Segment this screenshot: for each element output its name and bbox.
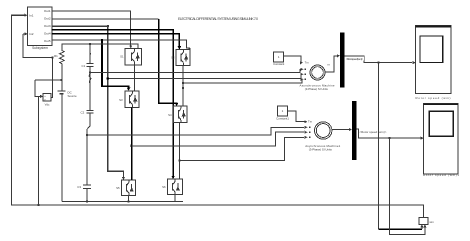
- svg-text:Vdc: Vdc: [45, 103, 50, 107]
- scope 2: [423, 104, 459, 178]
- svg-text:C2: C2: [80, 111, 84, 115]
- svg-text:Source: Source: [68, 94, 78, 98]
- scope 1: [416, 26, 452, 101]
- switch S2 (IGBT): [171, 49, 190, 65]
- wire S4 emitter to S6 collector: [178, 123, 180, 179]
- motor M1 (asynchronous machine): [300, 54, 341, 91]
- switch S4 (IGBT): [168, 106, 187, 123]
- wire phase A to motor1: [89, 68, 304, 74]
- bus selector bar 1: [340, 33, 345, 88]
- wire bar1 to scope1: [345, 56, 416, 64]
- voltage measurement block V1: [43, 94, 51, 107]
- svg-text:S5: S5: [116, 186, 120, 190]
- wire out4 (bold) to S6 gate: [52, 30, 175, 179]
- wire phase C to motor1: [182, 78, 304, 84]
- constant block K1: [273, 52, 309, 66]
- svg-text:In2: In2: [29, 32, 34, 36]
- motor M2 (asynchronous machine): [305, 122, 352, 152]
- svg-text:C3: C3: [77, 185, 81, 189]
- capacitor C3: [77, 185, 91, 201]
- wire out5 (bold) to S2 gate: [52, 34, 182, 50]
- feedback wire wm2 to sum: [388, 137, 426, 234]
- svg-text:S6: S6: [162, 185, 166, 189]
- wire S3 emitter to S5 collector (bold): [131, 107, 133, 180]
- sum block: [419, 218, 435, 225]
- svg-text:R1: R1: [54, 54, 58, 58]
- switch S6 (IGBT): [162, 179, 182, 195]
- svg-text:Out1: Out1: [44, 9, 51, 13]
- title text: [178, 17, 258, 21]
- feedback wire wm1 to sum: [378, 62, 424, 230]
- wire out3 to S3/S5 gate bus: [52, 25, 125, 180]
- svg-text:Rotor speed (wm)1: Rotor speed (wm)1: [423, 173, 459, 177]
- feedback wire long bottom: [12, 14, 424, 218]
- bottom dc- rail: [62, 195, 183, 203]
- capacitor C2: [80, 110, 93, 184]
- svg-text:Out2: Out2: [44, 17, 51, 21]
- svg-text:Subsystem: Subsystem: [32, 46, 48, 50]
- svg-text:<Rotor speed (wm)>: <Rotor speed (wm)>: [346, 57, 364, 61]
- wire phase B to motor1: [107, 73, 304, 80]
- svg-text:Constant: Constant: [273, 62, 284, 66]
- svg-text:wm: wm: [430, 220, 435, 224]
- resistor R1: [54, 49, 64, 66]
- wire phase C2 to motor2: [179, 136, 307, 161]
- constant block K2: [276, 106, 313, 123]
- dc+ rail: [62, 43, 138, 49]
- svg-text:<Rotor speed (wm)>: <Rotor speed (wm)>: [359, 130, 386, 134]
- capacitor C1: [81, 45, 93, 110]
- svg-text:Out4: Out4: [44, 32, 51, 36]
- wire out6 to S2 collector: [52, 40, 190, 50]
- dc source B1: [57, 65, 77, 201]
- wire bar2 to scope2: [357, 129, 424, 140]
- svg-text:ELECTRICAL DIFFERENTIAL SYSTEM: ELECTRICAL DIFFERENTIAL SYSTEM USING SIM…: [178, 17, 258, 21]
- switch S1 (IGBT): [120, 48, 141, 65]
- wire in2 loop: [23, 32, 62, 97]
- svg-text:Tm: Tm: [308, 119, 313, 123]
- bus selector bar 2: [352, 101, 357, 160]
- svg-text:Rotor speed (wm): Rotor speed (wm): [416, 96, 451, 100]
- wire branch to voltage measurement: [38, 95, 43, 206]
- svg-text:Tm: Tm: [305, 61, 310, 65]
- svg-text:S1: S1: [120, 55, 124, 59]
- svg-text:(3-Phase) SI Units: (3-Phase) SI Units: [309, 148, 333, 152]
- wire phase A2 to motor2: [86, 126, 307, 136]
- wire S2 emitter to S4 collector: [182, 65, 184, 106]
- wire S1 emitter to S3 collector: [133, 65, 135, 91]
- svg-text:Out3: Out3: [44, 24, 51, 28]
- gate branch (bold) to S3: [102, 40, 130, 91]
- svg-text:S4: S4: [168, 113, 172, 117]
- wire phase B2 to motor2: [132, 131, 308, 146]
- svg-text:In1: In1: [29, 14, 34, 18]
- wire out1 to S1 gate: [52, 11, 132, 48]
- svg-text:S3: S3: [119, 98, 123, 102]
- svg-text:S2: S2: [171, 56, 175, 60]
- svg-text:C1: C1: [81, 64, 85, 68]
- svg-text:Out5: Out5: [44, 39, 51, 43]
- svg-text:Constant1: Constant1: [276, 116, 289, 120]
- wire out2 to S4 gate: [52, 18, 159, 20]
- svg-text:(3-Phase) SI Units: (3-Phase) SI Units: [305, 87, 329, 91]
- switch S5 (IGBT): [116, 180, 135, 196]
- subsystem U1 (controller): [28, 7, 53, 50]
- switch S3 (IGBT): [119, 91, 139, 108]
